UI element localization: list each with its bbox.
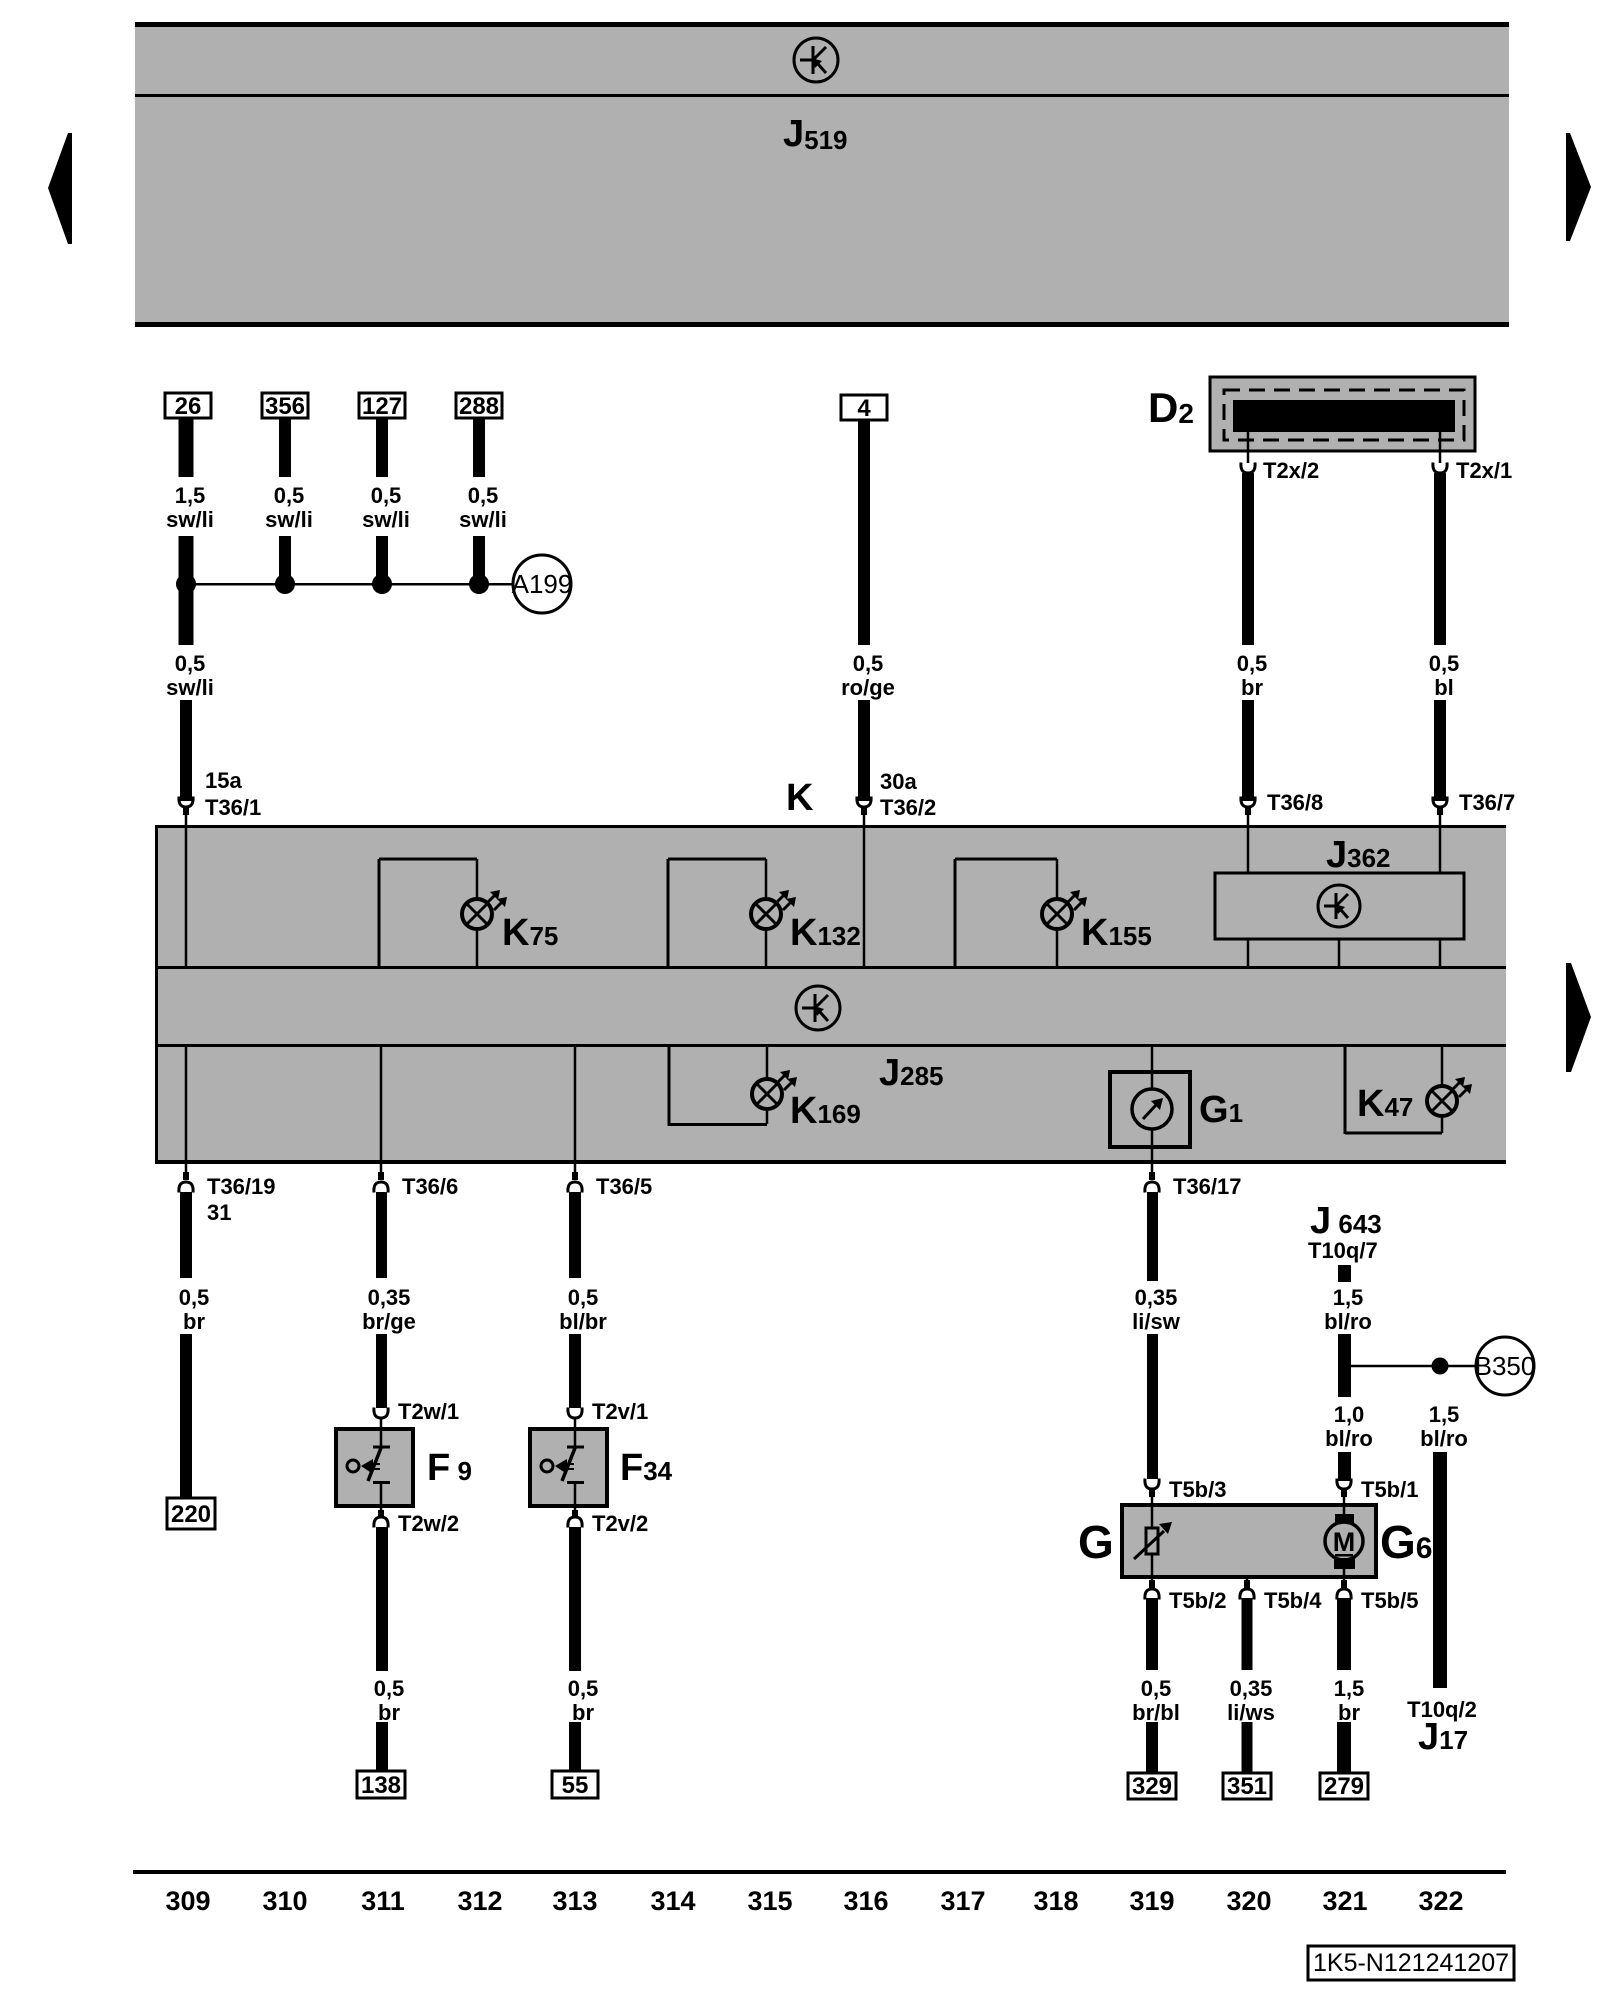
junction dot col 127 bbox=[372, 574, 392, 594]
warning lamp K75 bbox=[379, 859, 507, 966]
svg-text:br: br bbox=[572, 1700, 594, 1725]
svg-text:312: 312 bbox=[457, 1886, 502, 1916]
svg-text:329: 329 bbox=[1132, 1773, 1172, 1800]
page arrow right middle bbox=[1566, 963, 1591, 1072]
wire T36/7 into J362 bbox=[1439, 828, 1442, 873]
svg-text:4: 4 bbox=[857, 395, 871, 422]
wire 0,5 ro/ge from terminal 4 bbox=[858, 420, 870, 645]
svg-text:127: 127 bbox=[362, 393, 402, 420]
svg-text:0,5: 0,5 bbox=[274, 483, 305, 508]
node A199 (wiring junction) bbox=[512, 555, 573, 613]
svg-text:T5b/1: T5b/1 bbox=[1361, 1477, 1418, 1502]
switch F34 (brake fluid warning) bbox=[530, 1429, 607, 1506]
diagram ID box 1K5-N121241207 bbox=[1308, 1946, 1514, 1980]
svg-text:T2v/1: T2v/1 bbox=[592, 1399, 648, 1424]
svg-text:1,5: 1,5 bbox=[1429, 1402, 1460, 1427]
svg-text:0,35: 0,35 bbox=[1135, 1285, 1178, 1310]
wire 0,5 bl/br to F34 bbox=[569, 1192, 581, 1278]
svg-text:sw/li: sw/li bbox=[362, 507, 410, 532]
wire J362 to bus (right) bbox=[1439, 939, 1442, 966]
svg-text:A199: A199 bbox=[512, 569, 573, 599]
svg-text:220: 220 bbox=[171, 1501, 211, 1528]
connector T2x/2 bbox=[1241, 463, 1255, 474]
connector T2w/1 bbox=[374, 1408, 388, 1419]
wire 0,5 br D2 to T36/8 bbox=[1242, 473, 1254, 645]
svg-text:G: G bbox=[1078, 1516, 1114, 1568]
svg-text:30a: 30a bbox=[880, 769, 917, 794]
svg-text:279: 279 bbox=[1324, 1773, 1364, 1800]
svg-text:T36/5: T36/5 bbox=[596, 1174, 652, 1199]
svg-text:br: br bbox=[183, 1309, 205, 1334]
svg-text:T36/8: T36/8 bbox=[1267, 790, 1323, 815]
bus connection symbol inside J519 bbox=[794, 38, 838, 82]
terminal box 220 bbox=[167, 1498, 215, 1529]
svg-text:li/sw: li/sw bbox=[1132, 1309, 1181, 1334]
connector T5b/2 bbox=[1145, 1577, 1159, 1600]
svg-text:0,5: 0,5 bbox=[371, 483, 402, 508]
terminal box 138 bbox=[357, 1771, 405, 1799]
connector T5b/4 bbox=[1240, 1577, 1254, 1600]
svg-text:55: 55 bbox=[562, 1772, 589, 1799]
svg-text:T10q/7: T10q/7 bbox=[1308, 1238, 1378, 1263]
svg-text:bl/ro: bl/ro bbox=[1420, 1426, 1468, 1451]
svg-text:T2x/2: T2x/2 bbox=[1263, 458, 1319, 483]
terminal box 329 bbox=[1128, 1773, 1176, 1800]
svg-text:T36/17: T36/17 bbox=[1173, 1174, 1242, 1199]
wire J285 section col T36/6 bbox=[380, 1047, 383, 1160]
wire J362 to bus (centre) bbox=[1338, 939, 1341, 966]
connector T5b/3 bbox=[1145, 1479, 1159, 1506]
svg-text:0,5: 0,5 bbox=[1141, 1676, 1172, 1701]
svg-text:0,5: 0,5 bbox=[568, 1285, 599, 1310]
svg-text:310: 310 bbox=[262, 1886, 307, 1916]
current track numbers 309-322 bbox=[165, 1886, 1463, 1916]
svg-text:B350: B350 bbox=[1475, 1351, 1536, 1381]
wire 0,5 bl D2 to T36/7 bbox=[1434, 473, 1446, 645]
svg-text:309: 309 bbox=[165, 1886, 210, 1916]
connector T5b/5 bbox=[1337, 1577, 1351, 1600]
svg-text:T2x/1: T2x/1 bbox=[1456, 458, 1512, 483]
wire J285 section col T36/19 bbox=[185, 1047, 188, 1160]
wire J362 to bus (left) bbox=[1247, 939, 1250, 966]
connector T2w/2 bbox=[374, 1506, 388, 1528]
terminal box 26 bbox=[165, 393, 211, 420]
svg-text:T2w/1: T2w/1 bbox=[398, 1399, 459, 1424]
warning lamp K155 bbox=[955, 859, 1087, 966]
wire 0,5 sw/li to T36/1 bbox=[180, 700, 192, 801]
terminal box 351 bbox=[1223, 1773, 1271, 1800]
svg-text:br/bl: br/bl bbox=[1132, 1700, 1180, 1725]
terminal box 279 bbox=[1320, 1773, 1368, 1800]
warning lamp K169 bbox=[669, 1047, 797, 1126]
warning lamp K132 bbox=[668, 859, 796, 966]
connector T2x/1 bbox=[1433, 463, 1447, 474]
wire 1,5 sw/li from terminal 26 (upper segment) bbox=[179, 418, 194, 477]
svg-text:bl: bl bbox=[1434, 675, 1454, 700]
wire 1,5 br to terminal 279 bbox=[1337, 1598, 1351, 1670]
svg-text:1K5-N121241207: 1K5-N121241207 bbox=[1313, 1949, 1509, 1977]
svg-text:sw/li: sw/li bbox=[166, 507, 214, 532]
svg-text:0,5: 0,5 bbox=[1429, 651, 1460, 676]
wire 0,35 li/ws to terminal 351 bbox=[1242, 1598, 1253, 1670]
svg-text:T36/2: T36/2 bbox=[880, 795, 936, 820]
gauge G1 (fuel gauge) bbox=[1110, 1047, 1190, 1160]
svg-text:0,5: 0,5 bbox=[468, 483, 499, 508]
connector T36/2 bbox=[857, 797, 871, 827]
wire 0,35 li/sw to G bbox=[1147, 1192, 1158, 1281]
node B350 (plus connection) bbox=[1475, 1337, 1536, 1395]
svg-text:316: 316 bbox=[843, 1886, 888, 1916]
svg-text:311: 311 bbox=[361, 1886, 405, 1916]
terminal box 55 bbox=[552, 1771, 598, 1799]
control unit J362 (immobilizer) bbox=[1215, 873, 1464, 939]
wire T36/8 into J362 bbox=[1247, 828, 1250, 873]
wire 0,5 br T36/19 to terminal 220 bbox=[180, 1192, 192, 1278]
svg-text:br: br bbox=[1338, 1700, 1360, 1725]
svg-text:bl/ro: bl/ro bbox=[1324, 1309, 1372, 1334]
svg-text:sw/li: sw/li bbox=[265, 507, 313, 532]
terminal box 356 bbox=[262, 393, 308, 420]
page arrow left bbox=[48, 133, 72, 244]
terminal box 4 bbox=[841, 395, 887, 422]
svg-text:br/ge: br/ge bbox=[362, 1309, 416, 1334]
wire 0,5 sw/li from terminal 356 bbox=[279, 418, 291, 477]
display unit D2 bbox=[1210, 377, 1475, 451]
svg-text:T5b/5: T5b/5 bbox=[1361, 1588, 1418, 1613]
svg-text:351: 351 bbox=[1227, 1773, 1267, 1800]
terminal box 127 bbox=[359, 393, 405, 420]
svg-text:0,5: 0,5 bbox=[179, 1285, 210, 1310]
svg-text:1,5: 1,5 bbox=[175, 483, 206, 508]
svg-text:1,5: 1,5 bbox=[1333, 1285, 1364, 1310]
svg-text:26: 26 bbox=[175, 393, 202, 420]
wire J285 section col T36/5 bbox=[574, 1047, 577, 1160]
fuel gauge sender G / pump G6 box bbox=[1122, 1505, 1376, 1577]
connector T36/19 bbox=[179, 1164, 193, 1193]
svg-text:313: 313 bbox=[552, 1886, 597, 1916]
wire inside cluster from T36/2 bbox=[863, 828, 866, 966]
bus connection symbol in cluster middle strip bbox=[796, 986, 840, 1030]
wire 1,5 bl/ro from J643 bbox=[1338, 1265, 1351, 1282]
connector T2v/2 bbox=[568, 1506, 582, 1528]
connector T2v/1 bbox=[568, 1408, 582, 1419]
wire 0,5 br/bl to terminal 329 bbox=[1146, 1598, 1158, 1670]
wire 0,5 br F9 to terminal 138 bbox=[376, 1527, 388, 1671]
svg-text:T36/6: T36/6 bbox=[402, 1174, 458, 1199]
svg-text:sw/li: sw/li bbox=[166, 675, 214, 700]
svg-text:321: 321 bbox=[1322, 1886, 1367, 1916]
svg-text:317: 317 bbox=[940, 1886, 985, 1916]
switch F9 (brake fluid level) bbox=[336, 1429, 413, 1506]
svg-text:br: br bbox=[378, 1700, 400, 1725]
wire 0,5 sw/li from terminal 288 bbox=[473, 418, 485, 477]
connector T5b/1 bbox=[1337, 1479, 1351, 1506]
junction dot col 288 bbox=[469, 574, 489, 594]
fuel pump motor G6 bbox=[1325, 1505, 1363, 1577]
svg-text:T36/1: T36/1 bbox=[205, 795, 261, 820]
wire branch to node B350 bbox=[1351, 1365, 1476, 1368]
svg-text:0,35: 0,35 bbox=[1230, 1676, 1273, 1701]
svg-text:318: 318 bbox=[1033, 1886, 1078, 1916]
svg-text:T2v/2: T2v/2 bbox=[592, 1511, 648, 1536]
sender element (variable resistor) of G bbox=[1134, 1505, 1172, 1577]
svg-text:315: 315 bbox=[747, 1886, 792, 1916]
svg-text:320: 320 bbox=[1226, 1886, 1271, 1916]
svg-text:0,35: 0,35 bbox=[368, 1285, 411, 1310]
wire 0,5 br F34 to terminal 55 bbox=[569, 1527, 581, 1671]
wire 1,5 sw/li (segment through junction) bbox=[179, 536, 194, 645]
svg-text:288: 288 bbox=[459, 393, 499, 420]
wire from D2 pin T2x/1 bbox=[1439, 432, 1442, 463]
svg-text:0,5: 0,5 bbox=[175, 651, 206, 676]
svg-text:314: 314 bbox=[650, 1886, 695, 1916]
svg-text:T5b/4: T5b/4 bbox=[1264, 1588, 1322, 1613]
terminal box 288 bbox=[456, 393, 502, 420]
svg-text:0,5: 0,5 bbox=[853, 651, 884, 676]
svg-text:ro/ge: ro/ge bbox=[841, 675, 895, 700]
svg-text:322: 322 bbox=[1418, 1886, 1463, 1916]
svg-text:319: 319 bbox=[1129, 1886, 1174, 1916]
svg-text:T5b/2: T5b/2 bbox=[1169, 1588, 1226, 1613]
instrument cluster K / J285 box bbox=[155, 825, 1506, 1164]
svg-text:br: br bbox=[1241, 675, 1263, 700]
svg-text:M: M bbox=[1333, 1527, 1356, 1557]
wire from D2 pin T2x/2 bbox=[1247, 432, 1250, 463]
wire link to node A199 bbox=[186, 583, 513, 586]
svg-text:15a: 15a bbox=[205, 768, 242, 793]
svg-text:T36/7: T36/7 bbox=[1459, 790, 1515, 815]
svg-text:bl/br: bl/br bbox=[559, 1309, 607, 1334]
junction dot B350 branch bbox=[1432, 1358, 1449, 1375]
svg-text:0,5: 0,5 bbox=[374, 1676, 405, 1701]
svg-text:356: 356 bbox=[265, 393, 305, 420]
warning lamp K47 bbox=[1345, 1047, 1472, 1134]
svg-text:T2w/2: T2w/2 bbox=[398, 1511, 459, 1536]
svg-text:K: K bbox=[786, 777, 814, 819]
connector T36/1 bbox=[179, 797, 193, 827]
wire 0,35 br/ge to F9 bbox=[376, 1192, 387, 1278]
junction dot col 26 bbox=[176, 574, 196, 594]
svg-text:1,5: 1,5 bbox=[1334, 1676, 1365, 1701]
svg-text:bl/ro: bl/ro bbox=[1325, 1426, 1373, 1451]
connector T36/7 bbox=[1433, 797, 1447, 827]
junction dot col 356 bbox=[275, 574, 295, 594]
control unit J519 box (onboard supply control unit) bbox=[135, 22, 1509, 327]
page arrow right top bbox=[1566, 133, 1591, 241]
svg-text:31: 31 bbox=[207, 1200, 231, 1225]
svg-text:0,5: 0,5 bbox=[568, 1676, 599, 1701]
svg-text:0,5: 0,5 bbox=[1237, 651, 1268, 676]
connector T36/17 bbox=[1145, 1164, 1159, 1193]
svg-text:sw/li: sw/li bbox=[459, 507, 507, 532]
svg-text:T36/19: T36/19 bbox=[207, 1174, 276, 1199]
wire 0,5 sw/li from terminal 127 bbox=[376, 418, 388, 477]
wire inside cluster from T36/1 bbox=[185, 828, 188, 966]
connector T36/8 bbox=[1241, 797, 1255, 827]
svg-text:li/ws: li/ws bbox=[1227, 1700, 1275, 1725]
svg-text:T5b/3: T5b/3 bbox=[1169, 1477, 1226, 1502]
svg-text:138: 138 bbox=[361, 1772, 401, 1799]
svg-text:1,0: 1,0 bbox=[1334, 1402, 1365, 1427]
bottom rule (current track line) bbox=[133, 1870, 1506, 1874]
connector T36/6 bbox=[374, 1164, 388, 1193]
connector T36/5 bbox=[568, 1164, 582, 1193]
